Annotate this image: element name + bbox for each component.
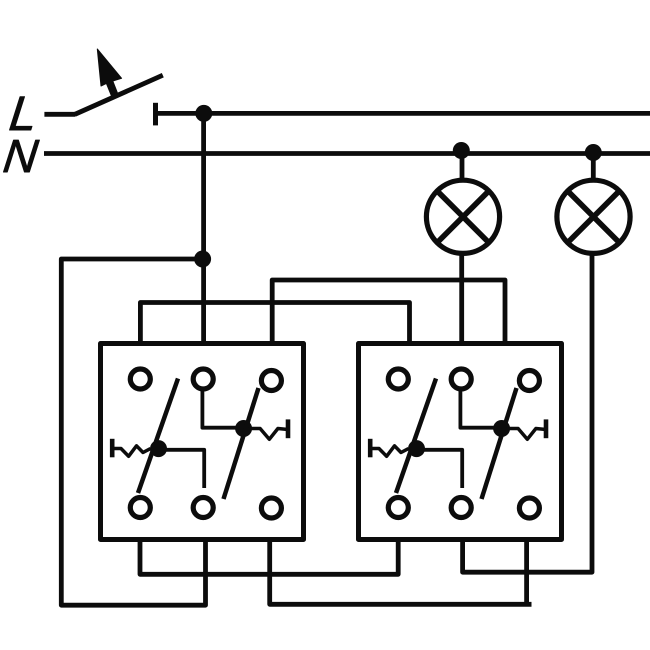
wire N to lamp E1	[460, 151, 465, 181]
wire L drop to switch box 1	[201, 113, 206, 343]
wire L lead-in	[44, 112, 75, 117]
contact wire rocker 1 to bottom-middle	[418, 450, 462, 488]
terminal 3 top-right	[519, 371, 539, 391]
svg-text:N: N	[1, 130, 41, 182]
wire box1 bottom-right to box2 bottom-right	[270, 539, 532, 604]
spring zigzag rocker 2	[251, 429, 288, 440]
lamp E1	[426, 180, 499, 253]
terminal 5 bottom-middle	[451, 498, 471, 518]
wire N bus	[44, 151, 650, 156]
contact wire rocker 1 to bottom-middle	[160, 450, 204, 488]
wire box1 top-left to box2 top (lower link)	[140, 303, 409, 345]
switch box 1 outline	[101, 344, 304, 540]
pivot dot rocker 1	[150, 440, 167, 457]
junction dot at left branch	[194, 251, 211, 268]
junction dot on N for lamp E2	[585, 144, 602, 161]
spring zigzag rocker 1	[370, 446, 408, 457]
wire L bus	[156, 111, 650, 116]
spring zigzag rocker 2	[509, 429, 546, 440]
switch unit 1 internals	[112, 369, 288, 518]
terminal 6 bottom-right	[519, 498, 539, 518]
spring anchor tick rocker 2	[286, 419, 291, 438]
lamp E2	[557, 180, 630, 253]
terminal 2 top-middle	[193, 369, 213, 389]
switch S1 actuator arrow	[97, 49, 121, 95]
wire box1 top-right to box2 top (upper link)	[272, 280, 505, 344]
spring anchor tick rocker 2	[544, 419, 549, 438]
junction dot on N for lamp E1	[453, 142, 470, 159]
terminal 2 top-middle	[451, 369, 471, 389]
wire lamp E1 to box2 top	[459, 253, 464, 343]
terminal 1 top-left	[130, 369, 150, 389]
rocker arm 2	[224, 388, 259, 499]
rocker arm 1	[396, 379, 436, 494]
spring zigzag rocker 1	[112, 446, 150, 457]
wire top-middle to rocker 2 pivot	[460, 391, 500, 428]
junction dot on L at switch drop	[195, 105, 212, 122]
terminal 5 bottom-middle	[193, 498, 213, 518]
wire N to lamp E2	[591, 153, 596, 181]
pivot dot rocker 2	[235, 420, 252, 437]
pivot dot rocker 2	[493, 420, 510, 437]
terminal 4 bottom-left	[130, 498, 150, 518]
wire box1 bottom-left to box2 bottom-left	[140, 539, 398, 574]
switch box 2 outline	[359, 344, 562, 540]
rocker arm 1	[138, 379, 178, 494]
wire top-middle to rocker 2 pivot	[202, 391, 242, 428]
spring anchor tick rocker 1	[110, 439, 115, 458]
terminal 4 bottom-left	[388, 498, 408, 518]
terminal 3 top-right	[261, 371, 281, 391]
wire from branch node to box1 bottom middle terminal	[61, 259, 205, 605]
pivot dot rocker 1	[408, 440, 425, 457]
rocker arm 2	[482, 388, 517, 499]
switch unit 2 internals	[370, 369, 546, 518]
terminal 6 bottom-right	[261, 498, 281, 518]
node N label	[1, 130, 41, 182]
wire lamp E2 down to box2 bottom middle terminal	[463, 253, 592, 572]
switch S1 fixed contact	[153, 103, 158, 126]
node L label	[7, 87, 41, 141]
terminal 1 top-left	[388, 369, 408, 389]
spring anchor tick rocker 1	[368, 439, 373, 458]
switch S1 blade	[75, 75, 163, 114]
